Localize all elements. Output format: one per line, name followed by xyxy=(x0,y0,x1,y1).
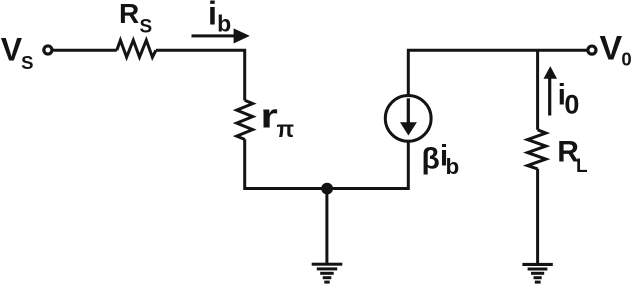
wire RL to ground 2 xyxy=(536,169,539,263)
current source arrow xyxy=(400,98,417,135)
resistor r_pi xyxy=(237,100,253,139)
resistor RS xyxy=(117,40,156,57)
svg-text:π: π xyxy=(277,116,295,142)
resistor RL xyxy=(528,130,546,169)
wire junction to ground 1 xyxy=(325,189,328,265)
wire RS to corner, down to r_pi xyxy=(156,50,245,100)
junction node dot xyxy=(321,183,333,195)
svg-text:VS: VS xyxy=(1,32,34,73)
ib current arrow xyxy=(192,28,250,43)
wire bottom rail up to current source xyxy=(407,142,410,190)
current source U1 circle xyxy=(385,96,431,142)
terminal V0 xyxy=(588,46,596,54)
svg-text:βib: βib xyxy=(422,139,460,179)
ground 1 xyxy=(312,263,343,284)
svg-text:i0: i0 xyxy=(558,78,580,119)
svg-text:r: r xyxy=(260,98,277,136)
i0 current arrow xyxy=(544,66,558,115)
svg-text:RS: RS xyxy=(119,0,152,38)
svg-text:ib: ib xyxy=(208,0,231,37)
wire top rail down to RL xyxy=(536,50,539,130)
wire r_pi down, corner, bottom rail to current source branch xyxy=(245,139,409,188)
terminal VS xyxy=(44,46,52,54)
wire VS to RS xyxy=(53,49,116,52)
svg-text:RL: RL xyxy=(557,136,588,177)
ground 2 xyxy=(522,263,552,284)
svg-text:V0: V0 xyxy=(600,30,631,70)
wire current source top, corner, top rail to V0 xyxy=(408,50,586,95)
